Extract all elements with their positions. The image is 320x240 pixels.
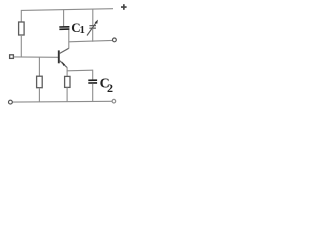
resistor R2 (65, 76, 70, 87)
resistor R3 (37, 76, 43, 88)
wire collector vertical (68, 30, 70, 49)
svg-text:1: 1 (80, 25, 85, 36)
wire R3 top lead (38, 57, 40, 76)
terminal circle bottom-right (112, 99, 116, 103)
transistor Q1 (59, 48, 69, 67)
wire left vertical lower (20, 35, 22, 57)
terminal input square (10, 55, 14, 59)
capacitor C1 (59, 27, 69, 30)
capacitor C3 variable (87, 20, 98, 36)
terminal circle output (113, 38, 117, 42)
terminal circle bottom-left (9, 100, 13, 104)
wire bottom rail (12, 100, 112, 103)
wire emitter horizontal (67, 69, 93, 72)
svg-text:2: 2 (107, 81, 113, 95)
capacitor C2 (88, 80, 97, 83)
wire emitter vertical (66, 67, 68, 76)
wire varcap top lead (92, 9, 94, 25)
wire varcap bottom lead (92, 29, 94, 42)
wire R2 bottom lead (66, 87, 68, 101)
resistor R1 (19, 22, 25, 35)
wire collector horizontal (69, 40, 113, 41)
wire left vertical upper (20, 10, 22, 23)
wire base (14, 56, 59, 58)
wire C2 bottom lead (92, 84, 94, 102)
wire R3 bottom lead (38, 88, 40, 102)
wire C2 top lead (92, 70, 94, 80)
plus supply marker (121, 4, 127, 10)
wire top supply rail (21, 9, 113, 11)
wire C1 top lead (63, 9, 65, 26)
